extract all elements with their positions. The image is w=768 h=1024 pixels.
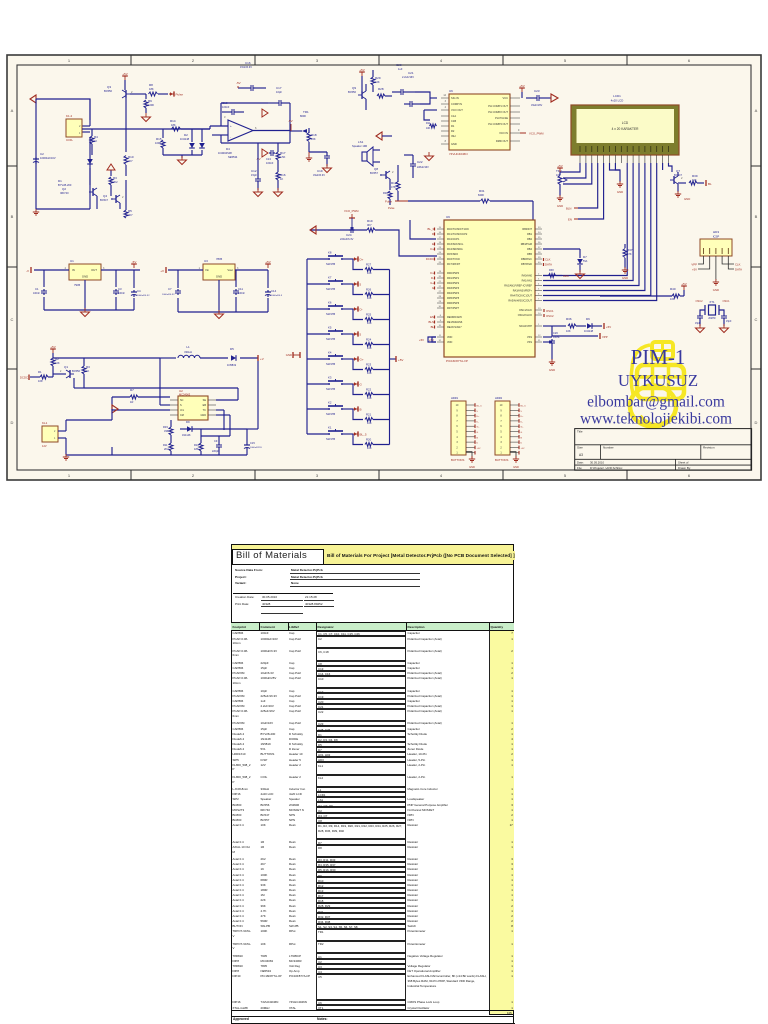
net labels OSC [695,299,730,320]
capacitor C14 [265,289,283,297]
svg-text:K6: K6 [328,301,332,305]
header HDR2 [495,396,519,455]
svg-text:RB2: RB2 [527,238,532,241]
logo [630,342,684,427]
svg-text:EN: EN [568,218,572,222]
svg-text:G+: G+ [360,357,364,361]
svg-text:10K: 10K [692,178,697,182]
svg-text:33K: 33K [164,429,169,433]
svg-text:R1: R1 [451,124,455,128]
svg-text:Pulse: Pulse [388,206,395,210]
svg-text:+5V: +5V [521,448,525,450]
capacitor C19 [309,152,330,177]
svg-text:D9: D9 [186,420,190,424]
power -5V TR1 [288,119,293,131]
capacitor C26 [543,331,560,356]
svg-text:GND: GND [216,275,222,279]
resistor R19 [678,172,704,185]
svg-text:D+: D+ [430,271,434,275]
svg-text:B: B [360,407,362,411]
pin numbers U9 right [538,227,541,342]
svg-text:RA3/AN3/VREF+: RA3/AN3/VREF+ [513,290,533,293]
big text website [580,411,732,428]
svg-text:BC556: BC556 [72,369,80,373]
svg-text:PH COMP1 OUT: PH COMP1 OUT [488,104,508,108]
resistor R15 [155,129,165,155]
capacitor C16 [238,61,266,91]
svg-text:47K: 47K [391,185,396,189]
ground below C12 [254,188,263,197]
wires into U6 left [424,98,449,144]
svg-text:+: + [230,124,232,128]
resistor R40 [600,282,687,301]
svg-text:10K: 10K [375,80,380,84]
svg-text:ICSP: ICSP [713,235,720,239]
svg-text:GND: GND [200,414,206,417]
speaker LS1 [352,140,380,166]
svg-text:RE1/WR/AN6: RE1/WR/AN6 [447,321,463,324]
svg-text:B: B [11,214,14,219]
red buffer triangle 2 [262,149,268,157]
resistor R2 [51,357,60,370]
svg-text:OSC1/CLKI: OSC1/CLKI [519,309,532,312]
svg-text:C13: C13 [266,157,271,161]
svg-text:R2: R2 [451,129,455,133]
svg-text:K4: K4 [328,351,332,355]
BOM total row [231,543,514,545]
svg-text:RE2/CS/AN7: RE2/CS/AN7 [447,326,462,329]
resistor R16 [276,172,286,190]
transistor Q4 [100,194,124,209]
svg-text:INH: INH [451,134,456,138]
switch K4 [307,351,364,367]
BOM body background [231,565,514,1024]
svg-text:Revision: Revision [703,446,715,450]
big text PIM-1 [631,345,686,369]
svg-text:CLK: CLK [735,263,741,267]
svg-text:33uF/6.3V: 33uF/6.3V [313,173,325,177]
title block [575,429,752,471]
IC U9 PIC16F877A [444,215,535,363]
power +5V Q1 [50,345,56,358]
svg-text:10K: 10K [367,421,372,425]
svg-text:Q1: Q1 [64,365,68,369]
svg-text:4K7: 4K7 [128,213,133,217]
svg-text:LS1: LS1 [358,140,364,144]
net flag left top [30,95,36,103]
capacitor C13 [256,150,275,165]
svg-text:SW-PB: SW-PB [326,337,335,341]
svg-text:UYKUSUZ: UYKUSUZ [618,371,698,390]
switch K3 [307,376,363,392]
resistor R24 [353,334,390,350]
svg-text:RD4/PSP4: RD4/PSP4 [447,292,460,295]
svg-text:R37: R37 [627,248,633,252]
svg-text:1K: 1K [94,139,97,143]
resistor R4 [90,129,98,155]
net label DCDC [20,375,29,381]
svg-text:BUTTONS: BUTTONS [495,458,508,462]
svg-text:R26: R26 [366,288,372,292]
svg-text:D-: D- [360,307,363,311]
BOM green header row [231,543,514,545]
switch array left bus [306,259,308,434]
svg-text:4.5K: 4.5K [280,155,286,159]
svg-text:D: D [432,232,434,236]
svg-text:PH COMP3 OUT: PH COMP3 OUT [488,122,508,126]
svg-text:SW-PB: SW-PB [326,287,335,291]
svg-text:RB7/PGD: RB7/PGD [521,263,532,266]
big text UYKUSUZ [618,371,698,390]
svg-text:BC556: BC556 [348,90,356,94]
U9 VDD wires [419,337,436,342]
svg-text:G+: G+ [430,281,434,285]
svg-text:GND: GND [622,276,628,280]
svg-text:D2: D2 [184,133,188,137]
svg-text:GND: GND [469,465,475,469]
capacitor C22 [404,155,429,178]
svg-text:GND: GND [286,353,292,357]
svg-text:SIG IN: SIG IN [451,96,459,100]
svg-text:D5: D5 [230,347,234,351]
svg-text:R8: R8 [149,83,153,87]
svg-text:SW-PB: SW-PB [326,387,335,391]
op-amp U4 [218,115,257,159]
svg-text:U2: U2 [179,389,183,393]
LCD last pins to Q7 [663,163,672,172]
resistor R26 [353,284,390,300]
svg-text:L1: L1 [186,345,190,349]
svg-text:RA4/T0CKI/C1OUT: RA4/T0CKI/C1OUT [510,295,532,298]
power stub +5V bus [390,356,404,362]
svg-text:R33: R33 [163,425,168,429]
svg-text:OSC1: OSC1 [722,299,730,303]
header HDR1 net labels [477,406,483,450]
svg-text:R36: R36 [566,317,572,321]
power -5V U1 out [131,260,137,268]
U9 VSS wires to ground [543,342,552,360]
svg-text:Pulse: Pulse [176,92,184,96]
svg-text:U9: U9 [446,215,450,219]
diode D5 [227,347,237,367]
svg-text:VSS: VSS [527,341,532,344]
svg-text:RC6/TX/CK: RC6/TX/CK [447,258,460,261]
switch K7 [307,276,362,292]
svg-text:+V: +V [160,269,164,273]
svg-text:DATA: DATA [545,263,552,267]
svg-text:1N4148: 1N4148 [584,329,594,333]
svg-text:BLN: BLN [566,207,571,211]
resistor R23 [353,359,390,375]
bottom rail dcdc [66,447,247,455]
svg-text:VCO_PWM: VCO_PWM [529,132,544,136]
net label VCO_PWM on U6 [518,129,544,136]
inductor L1 [178,345,200,358]
svg-text:+5V: +5V [50,345,55,349]
LCD1 module [571,94,679,155]
svg-text:2K2: 2K2 [113,180,118,184]
svg-text:RA5/AN4/SS/C2OUT: RA5/AN4/SS/C2OUT [508,300,532,303]
svg-text:0K7: 0K7 [367,223,372,227]
svg-text:10K: 10K [367,446,372,450]
svg-text:4x20 LCD: 4x20 LCD [611,99,623,103]
ground below R9 [142,113,151,122]
svg-text:K3: K3 [328,376,332,380]
svg-text:R16: R16 [280,173,286,177]
svg-text:DCDC: DCDC [426,257,434,261]
switch K2 [307,401,362,417]
svg-text:+5V: +5V [681,282,686,286]
header HDR2 net labels [521,406,527,450]
svg-text:1000uF/25V: 1000uF/25V [250,447,262,449]
svg-text:SW-PB: SW-PB [326,312,335,316]
svg-text:220pF: 220pF [212,450,219,453]
svg-text:BL: BL [431,325,435,329]
svg-text:RD7/PSP7: RD7/PSP7 [447,307,460,310]
svg-text:4 x 20 KARAKTER: 4 x 20 KARAKTER [612,127,639,131]
transistor Q8 [370,167,394,190]
svg-text:HD3: HD3 [713,230,719,234]
capacitor C29 [695,310,705,326]
svg-text:RC5/SDO: RC5/SDO [447,253,458,256]
ground U1 [81,308,90,317]
pin numbers U9 left [439,227,442,342]
svg-text:840K: 840K [478,193,484,197]
svg-text:G: G [432,286,434,290]
svg-text:D7: D7 [583,255,587,259]
svg-text:R25: R25 [366,313,372,317]
svg-text:Q3: Q3 [107,85,111,89]
svg-text:BC556: BC556 [104,89,112,93]
capacitor C3 [113,287,125,295]
svg-text:C: C [11,317,14,322]
svg-text:+V: +V [260,357,264,361]
svg-text:www.teknolojiekibi.com: www.teknolojiekibi.com [580,411,732,428]
svg-text:Speaker 19R: Speaker 19R [352,144,367,148]
svg-text:R19: R19 [367,219,373,223]
svg-text:20MHz: 20MHz [708,318,716,320]
svg-text:C: C [755,317,758,322]
svg-text:+5V: +5V [692,268,697,272]
svg-text:C9: C9 [214,439,218,443]
svg-text:C1B: C1B [451,119,456,123]
svg-text:1N5819: 1N5819 [227,363,237,367]
ground below R16 [274,188,283,197]
svg-text:R27: R27 [366,263,372,267]
svg-text:R9: R9 [148,99,152,103]
svg-text:Date:: Date: [577,460,584,464]
svg-text:VDD: VDD [447,336,452,339]
svg-text:-5V: -5V [132,260,137,264]
svg-text:1000uF/6.3V: 1000uF/6.3V [137,295,150,297]
svg-text:R24: R24 [366,338,372,342]
svg-text:Number: Number [603,446,614,450]
svg-text:10K: 10K [367,396,372,400]
svg-text:R22: R22 [366,388,372,392]
resistor R37 [622,244,633,280]
svg-text:1000uF/6.3: 1000uF/6.3 [271,295,283,297]
capacitor C23 [526,89,551,107]
capacitor C17 [268,86,290,106]
svg-text:EB: EB [203,404,207,407]
svg-text:OSC2: OSC2 [546,314,554,318]
svg-text:100nF: 100nF [222,105,230,109]
capacitor C15 [224,361,262,455]
svg-text:D: D [755,420,758,425]
resistor R22 [353,384,390,400]
header HDR2 label BUTTONS [495,458,508,462]
svg-text:GND: GND [82,275,88,279]
transistor Q1 [53,365,80,388]
svg-text:SE: SE [203,399,207,402]
svg-text:+5V: +5V [398,358,403,362]
svg-text:C1: C1 [35,287,39,291]
switch K1 [307,426,367,442]
svg-text:R11: R11 [163,443,168,447]
svg-text:VDD: VDD [447,341,452,344]
svg-text:VCC: VCC [503,96,509,100]
LCD data bundle verticals [543,163,657,301]
svg-text:Title: Title [577,429,583,433]
resistor R28 [377,87,392,98]
header HDR1 [451,396,475,455]
svg-text:DATA: DATA [735,268,742,272]
svg-text:12V: 12V [42,444,47,448]
svg-text:R20: R20 [366,438,372,442]
svg-text:C19: C19 [317,169,323,173]
svg-text:VCO IN: VCO IN [499,131,508,135]
svg-text:100nF: 100nF [553,336,560,339]
net flag vco left arrow [310,226,316,234]
svg-text:R40: R40 [670,287,676,291]
svg-text:RD3/PSP3: RD3/PSP3 [447,287,460,290]
svg-text:C7: C7 [168,287,172,291]
svg-text:R1: R1 [38,370,42,374]
svg-text:C12: C12 [251,169,257,173]
BOM date rows [231,543,514,545]
svg-text:1uF: 1uF [398,67,403,71]
svg-text:330uH: 330uH [184,350,192,354]
svg-text:10K: 10K [367,346,372,350]
svg-text:MC34063: MC34063 [179,393,191,397]
svg-text:R38: R38 [549,269,554,272]
svg-text:15nF/6.3V: 15nF/6.3V [240,65,252,69]
resistor R20 [353,434,390,450]
net stub -V left [26,267,31,273]
svg-text:+5V: +5V [265,260,270,264]
ground below C19 [323,164,332,173]
svg-text:C11: C11 [238,287,243,291]
capacitor C11 [233,287,245,295]
LCD ground wires [610,163,624,194]
svg-text:RA2/AN2/VREF-/CVREF: RA2/AN2/VREF-/CVREF [504,285,532,288]
ground HDR1 [466,452,475,469]
capacitor C4 [131,289,150,297]
ground U3 [215,310,224,319]
svg-text:D-: D- [431,276,434,280]
capacitor C2 [33,152,56,164]
power -5V opamp [236,81,241,88]
svg-text:15pF: 15pF [251,173,257,177]
svg-text:R10: R10 [128,155,134,159]
svg-text:DMD OUT: DMD OUT [496,139,509,143]
svg-text:1R: 1R [130,400,133,404]
regulator U1 7905 [65,259,105,287]
svg-text:R21: R21 [366,413,372,417]
svg-text:RD6/PSP6: RD6/PSP6 [447,302,460,305]
svg-text:D+: D+ [360,257,364,261]
svg-text:Sheet of: Sheet of [678,460,689,464]
svg-text:COMP IN: COMP IN [451,102,462,106]
svg-text:5V1: 5V1 [583,259,588,263]
ground triangle right of C22 [425,152,434,161]
svg-text:-: - [230,135,231,139]
svg-text:R28: R28 [378,87,384,91]
svg-text:22K: 22K [311,137,316,141]
U1 wires [34,270,140,310]
svg-text:-V: -V [26,269,29,273]
svg-text:10K: 10K [367,371,372,375]
svg-text:R10: R10 [194,443,199,447]
svg-text:-5V: -5V [288,119,293,123]
svg-text:BL_5: BL_5 [521,406,527,408]
IC U2 MC34063 [178,389,208,420]
svg-text:C1A: C1A [451,114,456,118]
power arrow mid [107,164,115,176]
svg-text:elbombar@gmail.com: elbombar@gmail.com [587,394,725,411]
svg-text:R12: R12 [391,181,397,185]
U3 wires [168,270,268,312]
relay K1.1 [42,420,112,455]
HD3 pin wires [698,256,734,280]
capacitor C12 [251,143,261,190]
svg-text:OSC2/CLKO: OSC2/CLKO [518,314,532,317]
grounds under crystal [696,324,729,333]
svg-text:K7: K7 [328,276,332,280]
svg-text:BL_3: BL_3 [427,227,434,231]
U2 pin stubs [170,400,216,415]
svg-text:RB1: RB1 [527,233,532,236]
potentiometer TR1 [296,110,317,152]
resistor R7 [112,388,170,404]
switch K6 [307,301,363,317]
svg-text:IN: IN [72,268,75,272]
svg-text:OUT: OUT [91,268,97,272]
svg-text:100nF: 100nF [266,161,274,165]
net label BL right [704,180,712,186]
svg-text:10K: 10K [426,127,431,130]
capacitor C1 [33,287,47,295]
svg-text:A3: A3 [579,453,583,457]
net label VCO_PWM mid [344,209,359,230]
crystal XT1 [705,300,719,315]
svg-text:RC7/RX/DT: RC7/RX/DT [447,263,461,266]
svg-text:228uF/16V: 228uF/16V [417,166,429,169]
resistor R3b [82,358,90,388]
transistor Q7 [670,169,683,192]
svg-text:220uF/6.3V: 220uF/6.3V [340,237,354,241]
svg-text:R31: R31 [479,189,485,193]
svg-text:XT1: XT1 [709,300,715,304]
svg-text:1N4004S38: 1N4004S38 [218,151,232,155]
svg-text:GND: GND [557,204,563,208]
resistor R21 [353,409,390,425]
svg-text:D-: D- [521,421,524,423]
svg-text:Drawn By:: Drawn By: [678,466,691,470]
svg-text:4K7: 4K7 [128,159,133,163]
svg-text:R3: R3 [113,176,117,180]
wire joining D2 D3 bottom [163,155,202,158]
